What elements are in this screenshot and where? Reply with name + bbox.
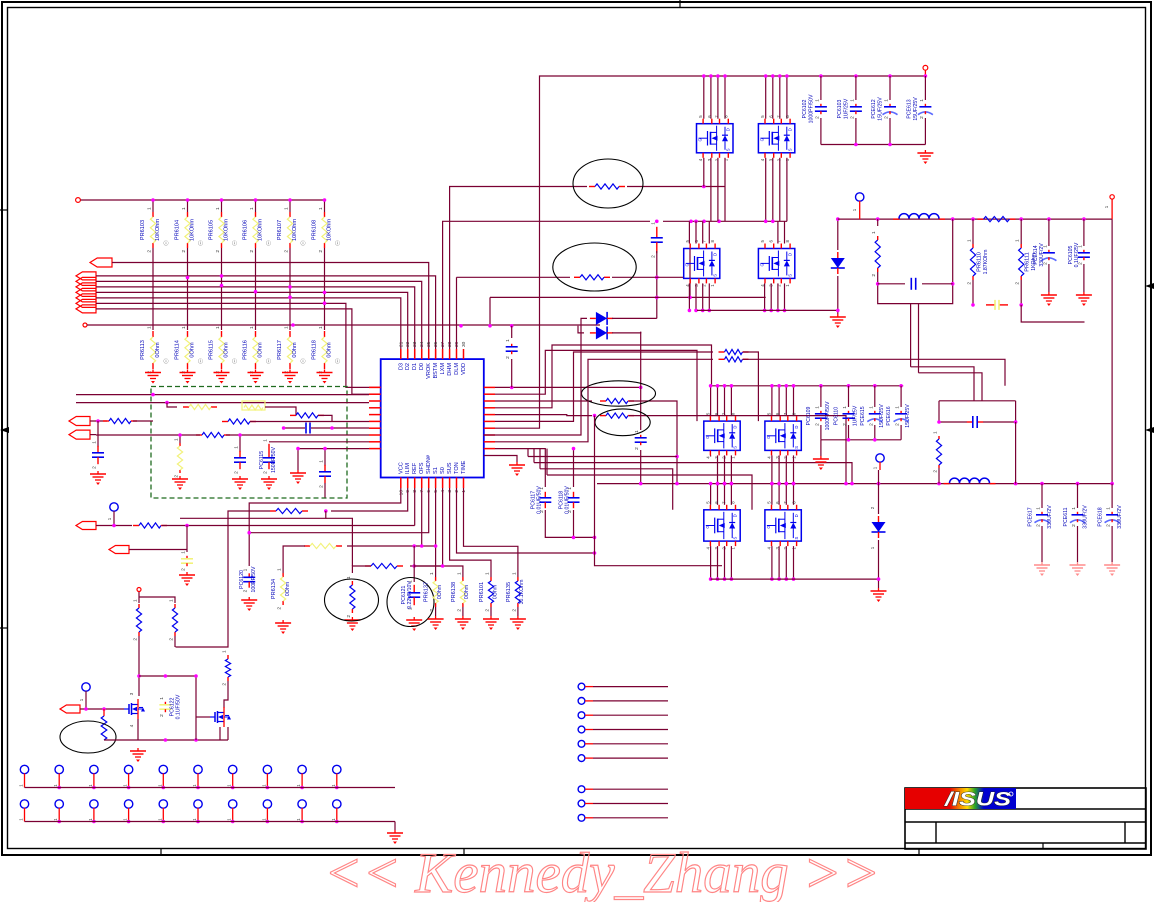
svg-text:2: 2 bbox=[263, 471, 269, 474]
wire bbox=[924, 76, 926, 100]
svg-text:TIME: TIME bbox=[461, 460, 467, 474]
wire staircase p4 bbox=[495, 345, 712, 408]
svg-text:150PF/50V: 150PF/50V bbox=[271, 446, 277, 472]
inductor bbox=[893, 214, 945, 219]
wire bbox=[495, 449, 545, 487]
ground bbox=[290, 470, 306, 484]
capacitor PC6117 bbox=[530, 486, 551, 514]
svg-text:0Ohm: 0Ohm bbox=[285, 582, 291, 596]
wire bbox=[93, 808, 95, 822]
svg-text:ⓘ: ⓘ bbox=[335, 358, 340, 365]
svg-text:PR6115: PR6115 bbox=[209, 340, 215, 360]
svg-text:PC6120: PC6120 bbox=[239, 570, 245, 589]
test point bbox=[20, 765, 28, 773]
svg-text:2: 2 bbox=[147, 250, 153, 253]
svg-text:ⓘ: ⓘ bbox=[163, 358, 168, 365]
highlight ellipse bbox=[387, 578, 434, 627]
svg-text:0.1UF/25V: 0.1UF/25V bbox=[1074, 242, 1080, 267]
svg-text:D: D bbox=[787, 128, 792, 131]
svg-text:1: 1 bbox=[181, 207, 187, 210]
wire bbox=[922, 283, 953, 285]
wire bbox=[889, 76, 891, 100]
bus wire bbox=[711, 578, 879, 580]
highlight ellipse bbox=[553, 243, 636, 291]
capacitor PC6118 bbox=[559, 486, 580, 514]
wire bbox=[489, 297, 491, 325]
svg-text:PR6137: PR6137 bbox=[424, 582, 430, 602]
wire bbox=[197, 808, 199, 822]
wire bbox=[546, 449, 548, 475]
test point bbox=[298, 800, 306, 808]
svg-text:1: 1 bbox=[319, 460, 325, 463]
wire bbox=[128, 773, 130, 787]
svg-text:1: 1 bbox=[215, 326, 221, 329]
svg-text:D: D bbox=[794, 426, 799, 429]
svg-text:2: 2 bbox=[346, 615, 352, 618]
wire bbox=[138, 592, 140, 603]
wire bbox=[702, 221, 704, 243]
test point bbox=[194, 765, 202, 773]
wire bbox=[724, 158, 726, 222]
svg-text:23: 23 bbox=[412, 341, 418, 347]
wire bbox=[702, 283, 704, 310]
ground bbox=[180, 370, 196, 384]
capacitor PC6115 bbox=[259, 439, 277, 474]
highlight ellipse bbox=[325, 579, 379, 621]
svg-text:PC6102: PC6102 bbox=[802, 100, 808, 119]
wire bbox=[837, 219, 839, 250]
svg-text:330UF/2V: 330UF/2V bbox=[1047, 505, 1053, 529]
svg-text:1: 1 bbox=[868, 406, 874, 409]
test point bbox=[578, 712, 585, 719]
svg-text:1: 1 bbox=[1106, 507, 1112, 510]
capacitor bbox=[986, 300, 1008, 310]
wire bbox=[724, 386, 726, 416]
wire bbox=[924, 70, 926, 76]
wire bbox=[81, 199, 325, 201]
wire bbox=[226, 434, 369, 436]
wire bbox=[765, 76, 767, 119]
wire bbox=[413, 546, 415, 582]
svg-text:0Ohm: 0Ohm bbox=[327, 342, 333, 358]
resistor PR6134 bbox=[271, 568, 286, 610]
input connector bbox=[69, 430, 90, 439]
resistor PR6110 bbox=[967, 239, 983, 285]
capacitor bbox=[505, 339, 518, 359]
transistor Q2 bbox=[210, 707, 231, 727]
resistor PR6105 bbox=[209, 207, 225, 253]
wire bbox=[938, 468, 940, 484]
wire bbox=[1111, 484, 1113, 508]
svg-text:30: 30 bbox=[461, 341, 467, 347]
resistor bbox=[101, 709, 107, 740]
wire output rail bbox=[597, 483, 1112, 485]
ground bbox=[317, 370, 333, 384]
svg-text:PC6103: PC6103 bbox=[837, 100, 843, 119]
ground bbox=[90, 471, 106, 485]
svg-text:PCE615: PCE615 bbox=[860, 406, 866, 425]
svg-text:24: 24 bbox=[419, 341, 425, 347]
svg-text:2: 2 bbox=[456, 609, 462, 612]
svg-text:1000PF/50V: 1000PF/50V bbox=[825, 401, 831, 430]
wire bbox=[918, 304, 920, 373]
wire bbox=[939, 400, 1016, 402]
resistor bbox=[222, 419, 256, 424]
svg-text:0Ohm: 0Ohm bbox=[493, 585, 499, 599]
wire bbox=[772, 158, 774, 222]
capacitor PCE614 bbox=[1033, 243, 1057, 267]
svg-text:G: G bbox=[766, 436, 771, 439]
resistor PR6106 bbox=[243, 207, 259, 253]
wire bbox=[197, 773, 199, 787]
node +V bbox=[923, 65, 928, 70]
capacitor PC6120 bbox=[239, 566, 257, 592]
svg-text:PR6110: PR6110 bbox=[977, 252, 983, 272]
wire bbox=[627, 186, 725, 188]
wire bbox=[724, 484, 726, 505]
wire bbox=[137, 719, 139, 740]
test point bbox=[90, 765, 98, 773]
wire pin DHM up bbox=[450, 187, 587, 350]
capacitor bbox=[319, 460, 332, 488]
test point bbox=[55, 765, 63, 773]
wire bbox=[785, 484, 787, 505]
wire bbox=[152, 200, 154, 212]
svg-text:1: 1 bbox=[814, 99, 820, 102]
svg-text:PR6105: PR6105 bbox=[209, 220, 215, 240]
resistor bbox=[871, 231, 880, 277]
svg-text:ⓘ: ⓘ bbox=[300, 240, 305, 247]
wire from diode2 bbox=[640, 332, 642, 430]
svg-text:25: 25 bbox=[426, 341, 432, 347]
wire bbox=[784, 283, 786, 310]
ground bbox=[261, 476, 277, 490]
resistor bbox=[978, 217, 1016, 222]
wire bbox=[179, 435, 181, 443]
wire bbox=[689, 249, 691, 298]
svg-text:10KOhm: 10KOhm bbox=[292, 219, 298, 241]
wire bbox=[1111, 199, 1113, 219]
wire bbox=[771, 386, 773, 416]
wire to pin VROK bbox=[112, 263, 429, 360]
wire bbox=[484, 434, 495, 436]
test point bbox=[578, 814, 585, 821]
wire bbox=[58, 773, 60, 787]
svg-text:1: 1 bbox=[456, 572, 462, 575]
resistor bbox=[933, 431, 942, 473]
wire bbox=[717, 546, 719, 579]
svg-text:PR6113: PR6113 bbox=[140, 340, 146, 360]
svg-text:1: 1 bbox=[814, 406, 820, 409]
bus wire bbox=[96, 287, 415, 359]
wire bbox=[80, 708, 124, 710]
resistor bbox=[304, 543, 342, 548]
svg-text:S: S bbox=[733, 446, 738, 449]
svg-text:2: 2 bbox=[871, 274, 877, 277]
wire bbox=[724, 546, 726, 579]
wire bbox=[547, 475, 752, 510]
svg-text:D0: D0 bbox=[419, 363, 425, 370]
svg-text:ⓘ: ⓘ bbox=[198, 240, 203, 247]
capacitor bbox=[650, 222, 663, 258]
svg-text:2: 2 bbox=[249, 250, 255, 253]
diode bbox=[872, 516, 886, 538]
wire bbox=[717, 484, 719, 505]
bus wire bbox=[821, 144, 926, 146]
test point bbox=[578, 740, 585, 747]
wire bbox=[1083, 219, 1085, 246]
input connector bbox=[76, 272, 96, 280]
svg-text:S: S bbox=[787, 148, 792, 151]
wire bbox=[187, 200, 189, 212]
wire ellipse2 row bbox=[457, 276, 571, 278]
svg-text:0Ohm: 0Ohm bbox=[224, 342, 230, 358]
svg-text:S: S bbox=[787, 274, 792, 277]
node bbox=[137, 588, 141, 592]
ground bbox=[830, 314, 846, 328]
wire bbox=[128, 808, 130, 822]
wire bbox=[87, 324, 600, 326]
svg-text:PR6138: PR6138 bbox=[451, 582, 457, 602]
test point bbox=[159, 765, 167, 773]
wire bbox=[129, 549, 187, 551]
svg-text:1: 1 bbox=[842, 406, 848, 409]
svg-text:D: D bbox=[733, 426, 738, 429]
wire bbox=[58, 808, 60, 822]
test point bbox=[578, 726, 585, 733]
svg-text:0Ohm: 0Ohm bbox=[258, 342, 264, 358]
transistor Q1 bbox=[124, 699, 145, 719]
wire bbox=[972, 280, 974, 305]
svg-text:1: 1 bbox=[895, 406, 901, 409]
svg-text:PCE612: PCE612 bbox=[871, 99, 877, 118]
capacitor bbox=[181, 551, 194, 571]
resistor PR6108 bbox=[312, 207, 328, 253]
wire bbox=[540, 469, 673, 510]
svg-text:DLM: DLM bbox=[454, 363, 460, 375]
wire staircase p2 bbox=[495, 350, 697, 421]
resistor bbox=[222, 650, 231, 686]
wire bbox=[771, 484, 773, 505]
test point bbox=[229, 800, 237, 808]
svg-text:2: 2 bbox=[814, 116, 820, 119]
wire bbox=[820, 386, 822, 407]
resistor PR6117 bbox=[277, 326, 293, 374]
svg-text:2: 2 bbox=[895, 423, 901, 426]
wire bbox=[710, 546, 712, 579]
wire bbox=[771, 546, 773, 579]
ground bbox=[241, 597, 257, 611]
resistor bbox=[365, 563, 403, 568]
wire bbox=[174, 636, 176, 647]
transistor PQ6106 bbox=[765, 412, 801, 459]
capacitor PC6121 bbox=[401, 580, 420, 610]
svg-text:26: 26 bbox=[433, 341, 439, 347]
wire bbox=[490, 296, 766, 298]
bus wire bbox=[96, 303, 380, 387]
svg-text:1: 1 bbox=[318, 207, 324, 210]
capacitor PC6105 bbox=[1068, 242, 1090, 267]
svg-text:VCC: VCC bbox=[398, 462, 404, 474]
wire bbox=[938, 401, 940, 422]
wire bbox=[324, 248, 326, 330]
resistor bbox=[574, 275, 610, 280]
svg-text:PR6111: PR6111 bbox=[1025, 252, 1031, 271]
svg-text:2: 2 bbox=[1106, 524, 1112, 527]
wire bbox=[324, 449, 326, 466]
input connector bbox=[76, 288, 96, 296]
wire bbox=[162, 773, 164, 787]
wire bbox=[539, 449, 541, 469]
wire bbox=[1077, 484, 1079, 508]
wire node LX2 bbox=[593, 414, 597, 418]
svg-text:VDD: VDD bbox=[461, 363, 467, 375]
wire box stem row bbox=[911, 367, 974, 401]
transistor PQ6105 bbox=[704, 412, 740, 459]
svg-text:VROK: VROK bbox=[426, 363, 432, 379]
wire bbox=[786, 158, 788, 222]
test point bbox=[90, 800, 98, 808]
svg-text:1: 1 bbox=[169, 599, 175, 602]
wire bbox=[104, 739, 228, 741]
svg-text:PR6108: PR6108 bbox=[312, 220, 318, 240]
wire bbox=[162, 808, 164, 822]
transistor PQ6103 bbox=[684, 240, 720, 287]
wire bbox=[224, 681, 228, 708]
wire bbox=[533, 449, 535, 463]
svg-text:21: 21 bbox=[398, 341, 404, 347]
wire row1 bbox=[495, 386, 641, 388]
wire bbox=[770, 283, 772, 310]
capacitor PCE618 bbox=[1098, 505, 1124, 529]
svg-text:1.87KOhm: 1.87KOhm bbox=[983, 250, 989, 275]
svg-text:1: 1 bbox=[159, 697, 165, 700]
svg-text:<< Kennedy_Zhang >>: << Kennedy_Zhang >> bbox=[324, 842, 880, 902]
svg-text:15UF/25V: 15UF/25V bbox=[913, 97, 919, 121]
wire bbox=[793, 386, 795, 416]
svg-text:1: 1 bbox=[485, 572, 491, 575]
input connector bbox=[69, 417, 90, 426]
ground bbox=[483, 616, 499, 630]
svg-text:1: 1 bbox=[249, 207, 255, 210]
ground bbox=[1070, 562, 1086, 576]
capacitor bbox=[911, 278, 915, 290]
test point bbox=[124, 800, 132, 808]
svg-text:PCE616: PCE616 bbox=[886, 406, 892, 425]
svg-text:REF: REF bbox=[412, 462, 418, 474]
test point bbox=[578, 800, 585, 807]
svg-text:10KOhm: 10KOhm bbox=[190, 219, 196, 241]
wire ellipse row2 p5 bbox=[495, 415, 592, 416]
svg-text:2: 2 bbox=[181, 250, 187, 253]
wire bbox=[221, 200, 223, 212]
resistor R yellow bbox=[183, 404, 217, 409]
svg-text:10KOhm: 10KOhm bbox=[258, 219, 264, 241]
resistor bbox=[270, 508, 308, 513]
resistor PR6113 bbox=[140, 326, 156, 374]
wire bbox=[820, 76, 822, 100]
wire PC6118 branch bbox=[573, 449, 575, 487]
svg-text:10KOhm: 10KOhm bbox=[224, 219, 230, 241]
resistor bbox=[196, 432, 230, 437]
wire staircase p6 bbox=[495, 352, 713, 421]
svg-text:BSTM: BSTM bbox=[433, 363, 439, 379]
svg-text:PR6104: PR6104 bbox=[175, 220, 181, 240]
svg-text:ⓘ: ⓘ bbox=[232, 358, 237, 365]
svg-text:PR6135: PR6135 bbox=[506, 582, 512, 602]
svg-text:SUS: SUS bbox=[447, 462, 453, 474]
svg-text:2: 2 bbox=[919, 116, 925, 119]
svg-text:1000PF/50V: 1000PF/50V bbox=[808, 94, 814, 123]
svg-text:0.22UF/10V: 0.22UF/10V bbox=[407, 581, 413, 609]
wire bbox=[311, 427, 369, 429]
wire bbox=[878, 484, 880, 514]
svg-text:PR6117: PR6117 bbox=[277, 340, 283, 360]
bus wire bbox=[96, 276, 436, 359]
wire bbox=[250, 421, 369, 423]
wire bbox=[266, 808, 268, 822]
wire bbox=[765, 158, 767, 222]
wire bbox=[724, 76, 726, 119]
wire bbox=[133, 420, 153, 422]
svg-text:1: 1 bbox=[234, 446, 240, 449]
svg-text:30.1KOhm: 30.1KOhm bbox=[519, 580, 525, 605]
capacitor PC6122 bbox=[159, 694, 182, 719]
ground bbox=[344, 617, 360, 631]
resistor PR6101 bbox=[479, 572, 494, 612]
wire bbox=[585, 686, 593, 688]
wire bbox=[785, 546, 787, 579]
svg-text:330UF/2V: 330UF/2V bbox=[1039, 243, 1045, 267]
wire bbox=[778, 386, 780, 416]
svg-text:D: D bbox=[712, 253, 717, 256]
svg-text:1: 1 bbox=[133, 599, 139, 602]
resistor PR6138 bbox=[451, 572, 466, 612]
svg-text:D3: D3 bbox=[398, 363, 404, 370]
wire bbox=[710, 386, 712, 416]
wire bbox=[227, 727, 229, 740]
svg-text:S: S bbox=[726, 148, 731, 151]
test point bbox=[159, 800, 167, 808]
wire bbox=[889, 118, 891, 145]
wire bbox=[585, 700, 593, 702]
wire bbox=[1020, 219, 1022, 244]
wire bbox=[743, 352, 758, 421]
wire bbox=[777, 283, 779, 310]
wire bbox=[324, 483, 326, 498]
wire bbox=[585, 743, 593, 745]
svg-text:ILIM: ILIM bbox=[405, 463, 411, 474]
wire bbox=[414, 566, 463, 577]
wire bbox=[1111, 526, 1113, 562]
wire bbox=[910, 304, 912, 367]
svg-text:2: 2 bbox=[234, 471, 240, 474]
svg-text:G: G bbox=[705, 436, 710, 439]
wire bbox=[710, 158, 712, 222]
op-amp U1 MAX1632 controller bbox=[369, 341, 525, 495]
wire bbox=[612, 317, 657, 319]
svg-text:0Ohm: 0Ohm bbox=[155, 342, 161, 358]
svg-text:PR6103: PR6103 bbox=[140, 220, 146, 240]
svg-text:S: S bbox=[794, 446, 799, 449]
test point bbox=[263, 765, 271, 773]
svg-text:PC6115: PC6115 bbox=[259, 451, 265, 469]
input connector bbox=[109, 546, 129, 554]
wire bbox=[96, 525, 132, 527]
diode bbox=[590, 312, 613, 325]
wire bbox=[878, 219, 953, 304]
wire bbox=[1083, 264, 1085, 292]
